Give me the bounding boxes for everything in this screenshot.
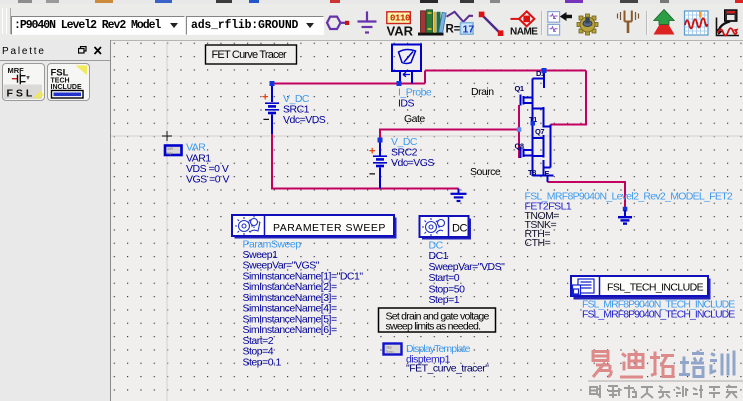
svg-text:VGS =0 V: VGS =0 V xyxy=(186,174,229,186)
svg-text:Q7: Q7 xyxy=(535,127,544,136)
svg-text:FSL: FSL xyxy=(7,88,36,100)
svg-text:Gate: Gate xyxy=(404,113,425,125)
node SRC2 top junction xyxy=(378,138,383,143)
include block FSL_TECH_INCLUDE xyxy=(571,276,711,300)
transistor FET2FSL1 (FSL model symbol) xyxy=(521,71,554,183)
svg-text:Vdc=VGS: Vdc=VGS xyxy=(391,157,434,169)
svg-text:Q8: Q8 xyxy=(515,142,524,151)
icon: NAME xyxy=(511,18,521,20)
svg-text:DC: DC xyxy=(452,223,467,235)
svg-text:−: − xyxy=(263,114,269,126)
svg-text:FSL_MRF8P9040N_TECH_INCLUDE: FSL_MRF8P9040N_TECH_INCLUDE xyxy=(582,309,735,321)
palette panel xyxy=(0,40,111,401)
svg-text:0110: 0110 xyxy=(390,14,410,24)
node FET source ground junction xyxy=(623,207,628,212)
palette button MRF FSL xyxy=(2,63,45,101)
axis lines xyxy=(110,135,743,137)
node SRC1 top junction xyxy=(270,81,275,86)
dropdown component history xyxy=(11,16,185,35)
icon: library books xyxy=(418,10,446,36)
svg-text:Q1: Q1 xyxy=(515,84,524,93)
ground (bottom rail) xyxy=(451,189,467,202)
dropdown ground lib xyxy=(186,16,324,35)
watermark line divider xyxy=(588,380,743,382)
wire: gate from SRC2 to FET gate bus xyxy=(380,130,519,141)
node I_Probe minus pin junction xyxy=(397,81,402,86)
svg-text:Step=0.1: Step=0.1 xyxy=(243,357,282,369)
origin marker xyxy=(162,131,172,141)
svg-text:+: + xyxy=(369,146,375,158)
svg-text:T8: T8 xyxy=(528,168,536,177)
watermark big char 4 (blue-gray) xyxy=(679,351,704,377)
svg-text:NAME: NAME xyxy=(510,27,538,38)
node FET gate bus junction xyxy=(517,127,522,132)
V_DC source SRC2 xyxy=(373,140,387,189)
wire: FET gate bus vertical xyxy=(518,105,520,158)
svg-text:sweep limits as needed.: sweep limits as needed. xyxy=(386,321,481,333)
watermark big char 2 (pink) xyxy=(620,351,643,378)
current probe I_Probe IDS xyxy=(392,45,421,84)
wire: FET source to ground xyxy=(548,182,626,210)
icon: port xyxy=(327,17,347,29)
svg-text:CTH=: CTH= xyxy=(525,237,551,249)
watermark big char 1 (pink) xyxy=(593,352,611,378)
icon: data display xyxy=(685,11,709,35)
display template disptemp1 xyxy=(384,344,402,355)
svg-text:IDS: IDS xyxy=(398,98,415,110)
icon: ground xyxy=(358,11,377,32)
icon: gear xyxy=(577,14,598,35)
ground (FET source) xyxy=(618,210,632,224)
palette button2 content: FSL TECH INCLUDE xyxy=(76,66,88,76)
svg-text:Eqn: Eqn xyxy=(167,151,173,156)
separator xyxy=(541,11,543,35)
note: FET Curve Tracer title box xyxy=(206,45,297,64)
top sliver of clipped toolbar row xyxy=(0,0,743,4)
main toolbar xyxy=(0,4,743,41)
svg-text:−: − xyxy=(369,169,375,181)
svg-text:FET Curve Tracer: FET Curve Tracer xyxy=(212,49,288,61)
simulation block PARAMETER SWEEP xyxy=(232,215,397,239)
svg-text:R=: R= xyxy=(446,24,461,36)
svg-text:VAR: VAR xyxy=(387,24,414,39)
grip xyxy=(2,8,7,34)
svg-text:Drain: Drain xyxy=(471,86,494,98)
icon: wire xyxy=(482,15,501,34)
svg-text:MRF: MRF xyxy=(8,66,25,75)
restore icon xyxy=(78,46,108,58)
V_DC source SRC1 xyxy=(265,84,279,135)
svg-text:Source: Source xyxy=(470,166,501,178)
svg-text:E: E xyxy=(545,169,550,178)
icon: R=17 xyxy=(447,12,474,22)
svg-text:Vdc=VDS: Vdc=VDS xyxy=(283,114,326,126)
svg-text:17: 17 xyxy=(463,23,475,35)
svg-text:Start=0: Start=0 xyxy=(429,272,460,284)
icon: push into hierarchy xyxy=(548,12,560,23)
svg-text:PARAMETER SWEEP: PARAMETER SWEEP xyxy=(273,222,386,234)
node FET T1 junction xyxy=(531,121,536,126)
icon: data file xyxy=(717,10,740,36)
watermark big char 3 (pink) xyxy=(650,352,674,377)
svg-text:FSL_TECH_INCLUDE: FSL_TECH_INCLUDE xyxy=(607,282,704,294)
svg-text:+: + xyxy=(262,92,268,104)
node FET drain D1 junction xyxy=(542,68,547,73)
wire: drain right drop to FET T1 drain xyxy=(551,71,587,125)
svg-text:"FET_curve_tracer": "FET_curve_tracer" xyxy=(406,363,489,375)
watermark small text row xyxy=(590,385,737,398)
wire: drain rail from SRC1 to probe and step up xyxy=(272,71,586,84)
simulation block DC xyxy=(420,216,472,240)
watermark big char 5 (blue-gray) xyxy=(710,351,734,376)
svg-text:Temp: Temp xyxy=(386,349,395,354)
icon: simulate arrow xyxy=(654,17,675,35)
icon: tune xyxy=(625,11,632,34)
icon: VAR xyxy=(387,12,411,24)
wire: SRC1 bottom to ground rail xyxy=(272,134,459,189)
palette button1 content: MRF FSL device xyxy=(4,85,43,100)
note: sweep limits box xyxy=(379,308,496,333)
variables block VAR1 xyxy=(165,146,182,156)
svg-text:Step=1: Step=1 xyxy=(429,294,460,306)
toolbar icons svg xyxy=(0,4,743,40)
palette button FSL TECH INCLUDE xyxy=(47,63,90,101)
